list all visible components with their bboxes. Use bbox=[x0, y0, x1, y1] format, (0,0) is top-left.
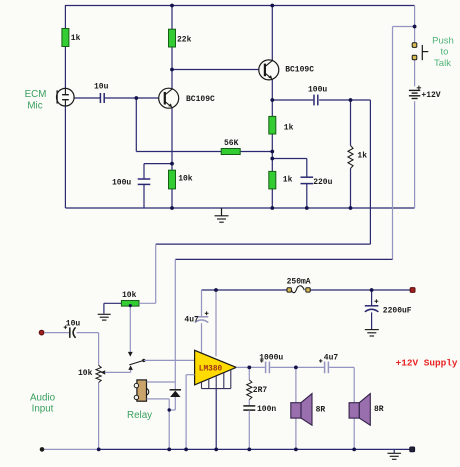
svg-text:1k: 1k bbox=[71, 34, 81, 43]
svg-text:56K: 56K bbox=[224, 139, 239, 148]
svg-text:Relay: Relay bbox=[127, 410, 152, 421]
svg-text:10k: 10k bbox=[78, 369, 93, 378]
svg-text:8R: 8R bbox=[316, 405, 326, 414]
svg-text:250mA: 250mA bbox=[287, 278, 311, 287]
svg-text:2R7: 2R7 bbox=[253, 386, 268, 395]
svg-text:Talk: Talk bbox=[434, 58, 451, 69]
svg-text:ECM: ECM bbox=[25, 89, 47, 100]
svg-text:100u: 100u bbox=[308, 85, 327, 94]
svg-text:2200uF: 2200uF bbox=[383, 307, 412, 316]
svg-text:Mic: Mic bbox=[27, 100, 42, 111]
svg-text:1000u: 1000u bbox=[259, 354, 283, 363]
svg-text:LM380: LM380 bbox=[199, 365, 223, 373]
svg-text:1k: 1k bbox=[284, 123, 294, 132]
svg-text:10u: 10u bbox=[66, 319, 81, 328]
svg-text:100u: 100u bbox=[112, 178, 131, 187]
svg-text:Push: Push bbox=[432, 35, 454, 46]
svg-text:1k: 1k bbox=[357, 152, 367, 161]
svg-text:BC109C: BC109C bbox=[186, 95, 215, 104]
svg-text:Input: Input bbox=[32, 404, 54, 415]
svg-text:10k: 10k bbox=[178, 175, 193, 184]
svg-text:1k: 1k bbox=[283, 175, 293, 184]
svg-text:8R: 8R bbox=[374, 405, 384, 414]
svg-text:Audio: Audio bbox=[30, 392, 56, 403]
svg-text:22k: 22k bbox=[177, 36, 192, 45]
svg-text:4u7: 4u7 bbox=[184, 315, 199, 324]
svg-text:+12V: +12V bbox=[421, 91, 440, 100]
svg-text:10u: 10u bbox=[94, 82, 109, 91]
svg-text:BC109C: BC109C bbox=[285, 66, 314, 75]
svg-text:10k: 10k bbox=[122, 291, 137, 300]
svg-text:to: to bbox=[441, 47, 449, 58]
svg-text:4u7: 4u7 bbox=[324, 354, 339, 363]
svg-text:+12V Supply: +12V Supply bbox=[396, 357, 458, 368]
svg-text:100n: 100n bbox=[257, 405, 276, 414]
svg-text:220u: 220u bbox=[313, 178, 332, 187]
